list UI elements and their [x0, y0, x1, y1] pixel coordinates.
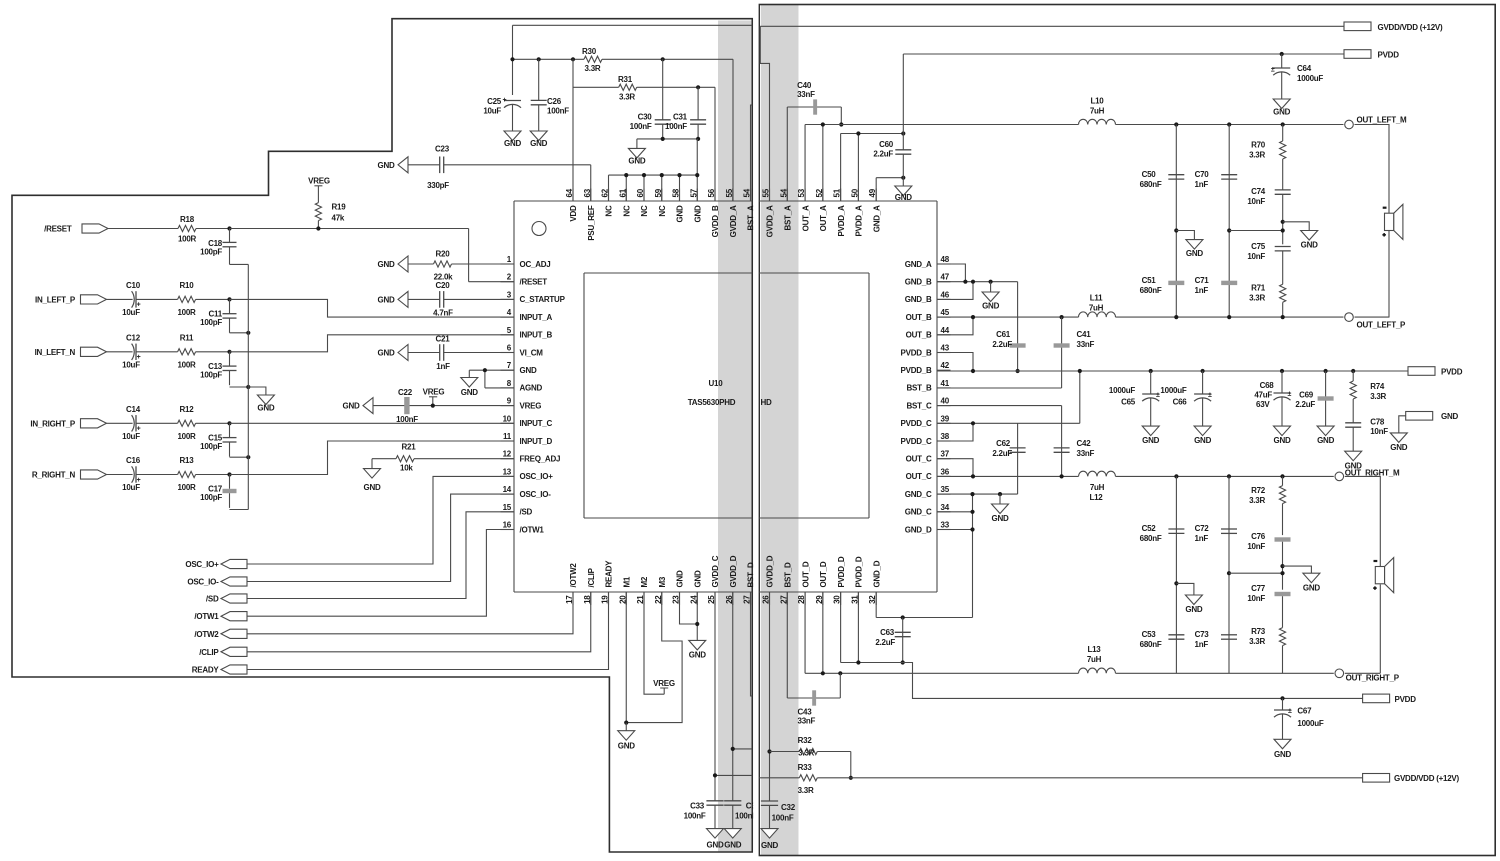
svg-text:OUT_RIGHT_P: OUT_RIGHT_P: [1346, 674, 1400, 683]
svg-text:R11: R11: [180, 333, 194, 342]
connector OSC_IO- output: [187, 577, 247, 587]
svg-text:41: 41: [941, 379, 950, 388]
VREG net label on pin 9: [423, 388, 445, 406]
svg-text:36: 36: [941, 467, 950, 476]
svg-text:100pF: 100pF: [200, 493, 222, 502]
resistor R32 3.3R: [770, 736, 851, 778]
pin 21 M2: [636, 576, 649, 605]
connector OSC_IO+ output: [185, 559, 247, 569]
connector PVDD right: [1408, 367, 1463, 377]
svg-text:1nF: 1nF: [1195, 640, 1209, 649]
pin 5 INPUT_B: [501, 326, 553, 340]
svg-text:/OTW1: /OTW1: [520, 525, 545, 534]
svg-text:C73: C73: [1195, 630, 1210, 639]
pin 55 GVDD_A (page 2): [762, 188, 775, 237]
svg-text:C66: C66: [1173, 398, 1188, 407]
svg-text:VREG: VREG: [308, 177, 330, 186]
svg-text:44: 44: [941, 326, 950, 335]
wire OSC_IO-: [247, 494, 514, 581]
pin 56 GVDD_B: [707, 188, 720, 237]
svg-text:C52: C52: [1142, 524, 1157, 533]
node VDD/C25 junction: [510, 57, 514, 61]
svg-text:READY: READY: [605, 560, 614, 588]
svg-text:GVDD_D: GVDD_D: [729, 555, 738, 587]
pin 35 GND_C: [905, 485, 951, 499]
svg-text:R30: R30: [582, 47, 597, 56]
svg-text:±: ±: [1288, 708, 1292, 715]
node pin 50 PVDD_A: [856, 131, 860, 135]
svg-text:680nF: 680nF: [1140, 286, 1162, 295]
svg-text:33nF: 33nF: [798, 717, 816, 726]
svg-text:C70: C70: [1195, 170, 1210, 179]
page 1 seam highlight band: [718, 21, 752, 852]
svg-text:43: 43: [941, 344, 950, 353]
capacitor C70 1nF: [1195, 125, 1238, 318]
pin 52 OUT_A (page 2): [815, 188, 828, 231]
pin 7 GND: [501, 361, 538, 375]
node pins 23/24: [695, 622, 699, 626]
svg-text:100pF: 100pF: [200, 248, 222, 257]
node C75 top: [1281, 228, 1285, 232]
wire VDD net: [513, 25, 734, 95]
svg-text:3.3R: 3.3R: [619, 93, 635, 102]
connector IN_LEFT_N input: [35, 347, 107, 357]
svg-text:BST_A: BST_A: [783, 205, 792, 230]
wire OSC_IO+: [247, 476, 514, 564]
svg-text:C67: C67: [1297, 707, 1312, 716]
node C30 top: [661, 57, 665, 61]
svg-text:3.3R: 3.3R: [1370, 392, 1386, 401]
wire PVDD_D net: [841, 592, 1363, 698]
resistor R33 3.3R: [759, 763, 851, 795]
node GVDD_D stub: [731, 747, 735, 751]
svg-text:PVDD_A: PVDD_A: [837, 205, 846, 236]
svg-text:C12: C12: [126, 333, 141, 342]
connector /CLIP output: [199, 647, 247, 657]
capacitor C40 33nF (BST_A bootstrap): [787, 81, 841, 201]
wire pin 26 GVDD_D column (left page): [733, 592, 753, 801]
node C15 on bus: [246, 455, 250, 459]
svg-text:3.3R: 3.3R: [1249, 151, 1265, 160]
node GND_B ground tap: [989, 280, 993, 284]
pin 45 OUT_B: [906, 308, 951, 322]
svg-text:100nF: 100nF: [772, 814, 794, 823]
svg-text:100pF: 100pF: [200, 442, 222, 451]
svg-text:1000uF: 1000uF: [1297, 719, 1323, 728]
svg-text:GND: GND: [991, 514, 1009, 523]
svg-text:680nF: 680nF: [1140, 180, 1162, 189]
capacitor C20 4.7nF: [408, 281, 514, 318]
wire OUT_LEFT_M to speaker: [1355, 125, 1390, 214]
svg-text:/RESET: /RESET: [520, 278, 548, 287]
wire C23 to pin 63 PSU_REF: [590, 165, 592, 201]
node pin 48 tie: [963, 280, 967, 284]
svg-text:GND_C: GND_C: [905, 508, 932, 517]
svg-text:BST_C: BST_C: [907, 401, 932, 410]
pin 58 GND: [672, 188, 685, 222]
page 2 seam highlight band: [761, 5, 799, 855]
svg-text:10nF: 10nF: [1370, 427, 1388, 436]
svg-text:100R: 100R: [177, 360, 196, 369]
svg-text:±: ±: [1208, 392, 1212, 399]
svg-text:M2: M2: [640, 576, 649, 587]
svg-text:100nF: 100nF: [665, 122, 687, 131]
svg-text:15: 15: [503, 503, 512, 512]
node PVDD_A to C60: [901, 131, 905, 135]
svg-text:37: 37: [941, 450, 950, 459]
svg-text:INPUT_C: INPUT_C: [520, 419, 553, 428]
svg-text:R10: R10: [180, 281, 195, 290]
svg-text:100R: 100R: [177, 308, 196, 317]
ground C66: [1194, 426, 1211, 436]
node OUT_RIGHT_M / R72: [1280, 474, 1284, 478]
capacitor C77 10nF: [1247, 584, 1290, 628]
node VDD pin64/R31 tap: [571, 57, 575, 61]
capacitor C74 10nF: [1247, 187, 1290, 244]
svg-text:OSC_IO+: OSC_IO+: [520, 472, 554, 481]
wire C17 to filter bus: [230, 509, 249, 511]
svg-text:38: 38: [941, 432, 950, 441]
svg-text:2.2uF: 2.2uF: [992, 449, 1012, 458]
svg-text:GND: GND: [618, 742, 636, 751]
pin 22 M3: [654, 576, 667, 605]
pin 12 FREQ_ADJ: [501, 450, 561, 464]
svg-text:C60: C60: [879, 140, 894, 149]
ground C60: [895, 186, 912, 196]
wire R31 feed: [573, 86, 619, 88]
svg-text:/SD: /SD: [206, 595, 219, 604]
wire /RESET run to IC: [230, 229, 515, 282]
svg-text:GND_C: GND_C: [905, 490, 932, 499]
svg-text:/OTW2: /OTW2: [194, 630, 219, 639]
pin 1 OC_ADJ: [501, 255, 551, 269]
connector OUT_RIGHT_M: [1335, 469, 1400, 481]
pin 2 /RESET: [501, 273, 548, 287]
wire OUT_B net: [937, 317, 1079, 335]
svg-text:GND: GND: [363, 483, 381, 492]
svg-text:GND: GND: [1273, 108, 1291, 117]
pin 10 INPUT_C: [501, 414, 553, 428]
svg-text:GVDD_A: GVDD_A: [729, 205, 738, 237]
capacitor C25 10uF: [483, 97, 521, 131]
pin 59 NC: [654, 188, 667, 216]
svg-text:46: 46: [941, 290, 950, 299]
wire C30/C31 ground bus: [637, 138, 698, 140]
pin 55 GVDD_A: [725, 188, 738, 237]
capacitor C11 100pF (RF filter): [200, 299, 236, 332]
node C11 on bus: [246, 331, 250, 335]
ground C25: [504, 131, 521, 141]
svg-text:C72: C72: [1195, 524, 1210, 533]
svg-text:NC: NC: [640, 205, 649, 217]
svg-text:OUT_A: OUT_A: [801, 205, 810, 231]
connector OUT_LEFT_M: [1345, 116, 1407, 129]
node PVDD riser top: [1078, 369, 1082, 373]
capacitor C14 10uF (AC coupling): [107, 405, 178, 441]
svg-text:12: 12: [503, 450, 512, 459]
svg-text:16: 16: [503, 521, 512, 530]
node C66 tap: [1201, 369, 1205, 373]
connector /RESET input: [44, 224, 108, 234]
svg-text:42: 42: [941, 361, 950, 370]
svg-text:GND: GND: [693, 205, 702, 223]
capacitor C75 10nF: [1247, 242, 1290, 284]
svg-text:R21: R21: [402, 443, 417, 452]
svg-text:10nF: 10nF: [1247, 252, 1265, 261]
connector PVDD bottom: [1363, 694, 1417, 704]
node R32 tap: [767, 749, 771, 753]
svg-text:PVDD_B: PVDD_B: [901, 348, 932, 357]
svg-text:3.3R: 3.3R: [585, 64, 601, 73]
svg-text:48: 48: [941, 255, 950, 264]
svg-text:VREG: VREG: [653, 679, 675, 688]
pin 30 PVDD_D (page 2): [833, 556, 846, 605]
svg-text:47: 47: [941, 273, 950, 282]
svg-text:R18: R18: [180, 215, 195, 224]
capacitor C12 10uF (AC coupling): [107, 333, 178, 369]
svg-text:33nF: 33nF: [1077, 340, 1095, 349]
capacitor C15 100pF (RF filter): [200, 423, 236, 456]
resistor R20 22.0k: [408, 250, 514, 282]
svg-text:U10: U10: [709, 379, 724, 388]
svg-text:C61: C61: [996, 330, 1011, 339]
svg-text:10k: 10k: [400, 464, 413, 473]
svg-text:R74: R74: [1370, 382, 1385, 391]
svg-text:/RESET: /RESET: [44, 225, 72, 234]
svg-text:OSC_IO-: OSC_IO-: [187, 578, 219, 587]
svg-text:VDD: VDD: [569, 205, 578, 222]
wire midpoint tie: [1229, 230, 1283, 232]
VREG net label at M2: [653, 679, 675, 694]
svg-text:33: 33: [941, 521, 950, 530]
svg-text:GND: GND: [377, 161, 395, 170]
connector GND right: [1406, 412, 1459, 422]
svg-text:C76: C76: [1251, 532, 1266, 541]
svg-text:OUT_LEFT_M: OUT_LEFT_M: [1357, 116, 1408, 125]
svg-text:C10: C10: [126, 281, 141, 290]
connector GVDD/VDD (+12V) top: [1344, 22, 1443, 32]
pin 29 OUT_D (page 2): [815, 561, 828, 605]
svg-text:GND: GND: [1194, 436, 1212, 445]
svg-text:C43: C43: [798, 708, 813, 717]
svg-text:10nF: 10nF: [1247, 542, 1265, 551]
node pin 60 tie: [642, 173, 646, 177]
svg-text:GND_A: GND_A: [905, 260, 932, 269]
capacitor C33 100nF: [684, 801, 724, 829]
svg-text:C77: C77: [1251, 584, 1266, 593]
node C17 tap: [227, 472, 231, 476]
svg-text:GND: GND: [257, 404, 275, 413]
capacitor C30 100nF: [630, 59, 671, 139]
wire IN_RIGHT_P to pin 10 INPUT_C: [230, 422, 515, 424]
wire /OTW1: [247, 530, 514, 617]
node C64 tap: [1280, 52, 1284, 56]
wire pin 64 VDD: [572, 59, 574, 201]
pin 54 BST_A: [743, 188, 756, 230]
node C63 bottom: [901, 660, 905, 664]
svg-text:BST_B: BST_B: [907, 384, 932, 393]
node pin 59 tie: [660, 173, 664, 177]
svg-text:PVDD: PVDD: [1441, 368, 1463, 377]
ground C67: [1274, 739, 1291, 749]
wire GND_C/GND_D tie: [876, 494, 1017, 617]
node C67 tap: [1280, 696, 1284, 700]
svg-text:GND: GND: [1441, 412, 1459, 421]
node C50/C51 midpoint: [1174, 228, 1178, 232]
wire GND_A pin 49: [876, 178, 903, 201]
svg-text:C42: C42: [1077, 439, 1092, 448]
resistor R74 3.3R: [1350, 371, 1386, 423]
capacitor C23 330pF: [408, 145, 591, 191]
svg-text:GND: GND: [504, 139, 522, 148]
svg-text:L13: L13: [1087, 645, 1101, 654]
svg-text:VREG: VREG: [520, 401, 542, 410]
GND net-label arrow for C21: [398, 345, 408, 361]
capacitor C67 1000uF: [1274, 698, 1324, 739]
node pin 43 tie: [971, 369, 975, 373]
node C72/C73 midpoint: [1227, 571, 1231, 575]
resistor R30 3.3R: [582, 47, 602, 73]
wire speaker to OUT_LEFT_P: [1388, 231, 1390, 318]
svg-text:C25: C25: [487, 97, 502, 106]
ground C34: [724, 829, 741, 839]
svg-text:PVDD_C: PVDD_C: [901, 419, 932, 428]
pin 64 VDD: [565, 188, 578, 221]
svg-text:C78: C78: [1370, 418, 1385, 427]
svg-text:NC: NC: [622, 205, 631, 217]
svg-text:IN_RIGHT_P: IN_RIGHT_P: [30, 419, 76, 428]
svg-text:C62: C62: [996, 439, 1011, 448]
IC U10 body outline (right page portion): [759, 201, 937, 592]
resistor R73 3.3R: [1249, 627, 1286, 673]
resistor R19 47k: [315, 203, 346, 229]
svg-text:100nF: 100nF: [547, 107, 569, 116]
svg-text:C23: C23: [435, 145, 450, 154]
wire R30 to pin 55 GVDD_A: [732, 59, 734, 201]
capacitor C16 10uF (AC coupling): [107, 456, 178, 492]
connector OUT_RIGHT_P: [1335, 669, 1400, 683]
svg-text:C51: C51: [1142, 276, 1157, 285]
svg-text:NC: NC: [605, 205, 614, 217]
capacitor C63 2.2uF: [875, 618, 910, 663]
capacitor C22 100nF: [373, 388, 514, 424]
node C18: [227, 226, 231, 230]
svg-text:GND: GND: [377, 260, 395, 269]
svg-text:PVDD: PVDD: [1395, 695, 1417, 704]
svg-text:PVDD_C: PVDD_C: [901, 437, 932, 446]
svg-text:/OTW2: /OTW2: [569, 563, 578, 588]
svg-text:VI_CM: VI_CM: [520, 348, 544, 357]
pin 34 GND_C: [905, 503, 951, 517]
svg-text:11: 11: [503, 432, 512, 441]
ground C32: [761, 829, 778, 839]
node C41 top: [1060, 315, 1064, 319]
svg-text:GND: GND: [461, 388, 479, 397]
svg-text:35: 35: [941, 485, 950, 494]
svg-text:2.2uF: 2.2uF: [1295, 400, 1315, 409]
svg-text:GND: GND: [342, 402, 360, 411]
GND net-label arrow for C20: [398, 291, 408, 307]
svg-text:63V: 63V: [1256, 400, 1270, 409]
wire /SD: [247, 512, 514, 599]
ground C69: [1317, 426, 1334, 436]
GND net-label arrow for C23: [398, 157, 408, 173]
ground C74/C75 midpoint: [1283, 222, 1318, 250]
svg-text:7uH: 7uH: [1089, 304, 1104, 313]
node GND_A to C60: [901, 176, 905, 180]
svg-text:R12: R12: [180, 405, 195, 414]
node pin 38 tie: [971, 421, 975, 425]
capacitor C71 1nF: [1195, 276, 1238, 295]
svg-text:PVDD_B: PVDD_B: [901, 366, 932, 375]
svg-text:C14: C14: [126, 405, 141, 414]
svg-text:GND_D: GND_D: [905, 525, 932, 534]
pin 37 OUT_C: [906, 450, 951, 464]
svg-text:L12: L12: [1089, 493, 1103, 502]
svg-text:OUT_D: OUT_D: [801, 561, 810, 587]
wire +12V tap to pin 55 GVDD_A: [760, 26, 769, 201]
svg-text:INPUT_D: INPUT_D: [520, 437, 553, 446]
svg-text:2.2uF: 2.2uF: [875, 638, 895, 647]
ground C26: [530, 131, 547, 141]
capacitor C52 680nF: [1140, 476, 1185, 673]
wire pin 57 GND: [696, 139, 698, 201]
capacitor C73 1nF: [1195, 630, 1237, 649]
svg-text:GND: GND: [895, 193, 913, 202]
capacitor C21 1nF: [408, 335, 514, 372]
node M1/M3 tie: [624, 721, 628, 725]
connector /OTW2 output: [194, 629, 247, 639]
svg-text:GND: GND: [761, 841, 779, 850]
svg-text:R31: R31: [618, 75, 633, 84]
wire /CLIP: [247, 592, 591, 652]
node C31 bottom / pin 57: [696, 137, 700, 141]
svg-text:/CLIP: /CLIP: [199, 648, 219, 657]
svg-text:100pF: 100pF: [200, 318, 222, 327]
svg-text:VREG: VREG: [423, 388, 445, 397]
svg-text:+: +: [503, 97, 507, 104]
pin 54 BST_A (page 2): [779, 188, 792, 230]
svg-text:100R: 100R: [177, 432, 196, 441]
svg-text:3.3R: 3.3R: [1249, 294, 1265, 303]
pin 48 GND_A: [905, 255, 951, 269]
wire R_RIGHT_N to pin 11 INPUT_D: [230, 441, 515, 475]
pin 9 VREG: [501, 397, 542, 411]
connector READY output: [192, 665, 247, 675]
svg-text:/SD: /SD: [520, 508, 533, 517]
wire GND connector: [1399, 416, 1406, 433]
wire C13 to filter bus: [230, 386, 249, 388]
svg-text:1nF: 1nF: [1195, 180, 1209, 189]
capacitor C69 2.2uF: [1295, 371, 1333, 426]
node C61 to PVDD_B: [1016, 369, 1020, 373]
node OUT_LEFT_M / C50: [1174, 122, 1178, 126]
svg-text:GND: GND: [676, 205, 685, 223]
node OUT_LEFT_P / R71: [1281, 315, 1285, 319]
svg-text:47k: 47k: [332, 214, 345, 223]
node C13 tap: [227, 350, 231, 354]
svg-text:OSC_IO+: OSC_IO+: [185, 560, 219, 569]
pin 17 /OTW2: [565, 563, 578, 605]
capacitor C41 33nF (BST_B bootstrap): [937, 317, 1095, 388]
svg-text:R20: R20: [436, 250, 451, 259]
svg-text:C64: C64: [1297, 64, 1312, 73]
resistor R18 100R: [178, 215, 197, 244]
svg-text:39: 39: [941, 414, 950, 423]
capacitor C10 10uF (AC coupling): [107, 281, 178, 317]
connector /OTW1 output: [194, 612, 247, 622]
svg-text:100R: 100R: [177, 483, 196, 492]
